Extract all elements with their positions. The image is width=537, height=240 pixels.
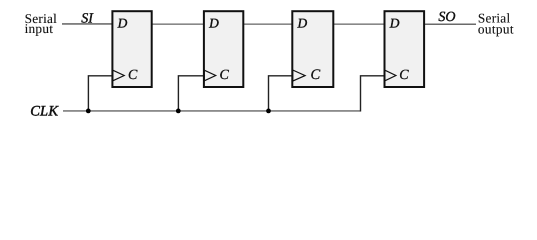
- svg-text:C: C: [128, 68, 138, 83]
- svg-text:output: output: [478, 21, 514, 36]
- svg-text:D: D: [208, 16, 219, 31]
- svg-text:C: C: [311, 67, 321, 83]
- svg-text:CLK: CLK: [30, 104, 59, 120]
- svg-text:D: D: [117, 16, 128, 31]
- svg-text:D: D: [389, 16, 400, 31]
- svg-text:C: C: [399, 68, 409, 83]
- svg-text:D: D: [297, 16, 308, 31]
- svg-text:SI: SI: [81, 11, 94, 26]
- svg-text:SO: SO: [438, 10, 455, 25]
- svg-text:C: C: [220, 68, 230, 83]
- svg-text:input: input: [25, 21, 54, 36]
